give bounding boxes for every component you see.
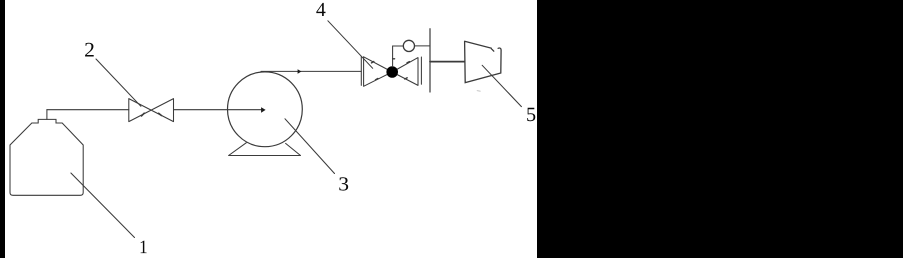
label 4 bbox=[316, 3, 325, 16]
leader line to label 1 bbox=[71, 173, 135, 238]
wire: tank outlet pipe (vertical) bbox=[46, 110, 48, 120]
valve V4 actuator ball (filled) bbox=[386, 66, 398, 78]
black margin strip left bbox=[0, 0, 5, 258]
valve V4 left flange bbox=[360, 56, 362, 85]
arrowhead on pump-to-valve wire bbox=[298, 69, 302, 73]
leader line to label 5 bbox=[482, 65, 521, 106]
black panel right bbox=[537, 0, 903, 258]
valve V4 left triangle bbox=[364, 57, 393, 87]
leader line to label 3 bbox=[285, 119, 335, 174]
wire: gauge to header line bbox=[415, 45, 431, 47]
header vertical line bbox=[429, 29, 431, 92]
faint stray mark below nozzle bbox=[477, 90, 480, 93]
valve V4 tick marks bbox=[372, 59, 410, 80]
wire: tank to valve V2 (horizontal) bbox=[47, 109, 129, 111]
label 5 bbox=[527, 108, 535, 121]
leader line to label 4 bbox=[328, 21, 373, 69]
valve V2 (bowtie) bbox=[129, 99, 174, 122]
pump P3 stand (trapezoid base) bbox=[229, 143, 301, 156]
label 3 bbox=[339, 177, 348, 190]
nozzle N5 (trapezoid horn) bbox=[465, 41, 502, 82]
valve V4 right triangle bbox=[392, 58, 418, 86]
wire: valve V2 to pump P3 bbox=[174, 109, 262, 111]
label 2 bbox=[85, 43, 94, 57]
wire: valve V4 to gauge bbox=[393, 46, 404, 67]
wire: header to nozzle N5 bbox=[430, 61, 465, 63]
valve V2 tick marks bbox=[142, 113, 162, 116]
gauge G1 (circle) bbox=[403, 40, 414, 51]
arrowhead at pump center bbox=[261, 107, 266, 113]
pump P3 (circle) bbox=[228, 72, 303, 147]
wire: pump P3 top to valve V4 bbox=[261, 70, 361, 72]
valve V4 right flange bbox=[420, 57, 422, 84]
label 1 bbox=[141, 241, 147, 254]
tank T1 (bottle) outline bbox=[10, 119, 83, 195]
leader line to label 2 bbox=[96, 59, 141, 106]
